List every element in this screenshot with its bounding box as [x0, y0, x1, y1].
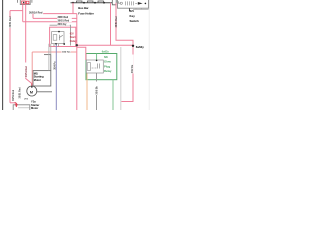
svg-text:30/4 Pu: 30/4 Pu	[54, 61, 57, 70]
svg-text:Fuse Holder: Fuse Holder	[78, 12, 94, 16]
svg-text:Plug: Plug	[104, 64, 110, 68]
fuse box side bracket left	[17, 0, 19, 3]
motor box right edge extension	[50, 55, 52, 71]
wire: bus bar drop to main feed	[110, 3, 112, 46]
wire: 1/32 Tan horizontal	[32, 51, 77, 53]
relay highlight box 62i (green)	[86, 54, 117, 80]
wire: gray below glow relay	[96, 73, 98, 110]
junction dot 6a62y	[132, 45, 134, 47]
starting motor box M1	[33, 71, 51, 86]
left page border	[2, 0, 4, 110]
svg-text:Relay: Relay	[104, 69, 112, 73]
bus bar	[71, 1, 113, 4]
wire: green below glow relay	[112, 80, 114, 110]
svg-text:30/2 Re: 30/2 Re	[131, 64, 134, 73]
wire: fuse pin A down	[22, 5, 24, 22]
svg-text:Motor: Motor	[34, 78, 41, 82]
battery cable hook (red)	[15, 103, 17, 107]
wire: branch to battery feed	[10, 10, 23, 12]
glow relay inner box	[86, 54, 103, 74]
svg-text:30/51 Red: 30/51 Red	[115, 16, 118, 28]
svg-text:Y1a: Y1a	[31, 99, 36, 103]
svg-text:30/51A Red: 30/51A Red	[29, 11, 43, 14]
key switch terminal dot	[145, 3, 147, 5]
wire: 30B Red horizontal	[33, 17, 77, 19]
wire: riser between 30/51A and 30B	[32, 14, 34, 19]
wire: gray pair to motor box	[48, 44, 50, 71]
fuse box side bracket right	[31, 0, 33, 3]
svg-text:30/4 Gy: 30/4 Gy	[58, 23, 68, 26]
start relay inner box	[52, 31, 66, 47]
right page border	[148, 0, 150, 110]
svg-text:6a62y: 6a62y	[136, 45, 144, 49]
wire: long vertical feed	[76, 14, 78, 110]
wire: fuse pin B down to motor	[26, 5, 32, 84]
wire: 30/4 Gy horizontal	[50, 25, 71, 45]
wire: main feed to key switch drop	[77, 44, 133, 46]
svg-text:Relay: Relay	[70, 40, 77, 43]
svg-text:Glow: Glow	[104, 60, 112, 64]
fuse element (red)	[22, 1, 29, 4]
key switch box 62t	[118, 0, 149, 8]
svg-text:30/51 Red: 30/51 Red	[25, 65, 28, 77]
wire: red drop into glow relay	[77, 47, 86, 60]
wire: battery feed vertical	[9, 11, 11, 103]
key switch internals	[118, 1, 137, 5]
svg-text:30/51 Red: 30/51 Red	[18, 87, 21, 99]
battery cable arrowhead	[15, 104, 18, 107]
svg-text:62f: 62f	[70, 32, 74, 35]
wire: orange below glow relay	[86, 73, 88, 110]
key switch bottom connector strip	[133, 8, 149, 10]
svg-text:Key: Key	[130, 14, 136, 18]
svg-text:Starter: Starter	[31, 103, 39, 107]
bus bar end connector	[112, 0, 116, 5]
starter motor circle M	[27, 84, 37, 97]
motor box partial top edge	[44, 54, 51, 56]
svg-text:1/32 Tan: 1/32 Tan	[62, 51, 71, 53]
svg-text:Start: Start	[70, 36, 76, 39]
wire: 30/51A Red horizontal	[43, 13, 77, 15]
svg-text:62t: 62t	[130, 9, 134, 13]
wire: purple 30/4 Pu	[55, 44, 57, 110]
key switch lead stub	[129, 8, 131, 11]
wire: tan drop to motor	[31, 52, 33, 84]
wire: light gray	[120, 47, 122, 110]
wire: bus bar right drop	[116, 3, 133, 102]
svg-text:Bus Bar: Bus Bar	[78, 6, 88, 10]
fuse holder box	[20, 0, 30, 5]
junction dot	[76, 44, 78, 46]
svg-text:6a62x: 6a62x	[102, 51, 110, 54]
motor box lower edge	[37, 91, 53, 93]
svg-text:Switch: Switch	[130, 19, 140, 23]
svg-text:30/51 Red: 30/51 Red	[9, 16, 12, 28]
relay highlight box 62f (red)	[50, 27, 76, 46]
wire: 30/51 Red horizontal	[23, 21, 77, 23]
wire: battery feed bottom horizontal	[10, 102, 15, 104]
key switch contact arrow	[138, 2, 143, 5]
label backings for wire names	[29, 11, 43, 14]
svg-text:30/6 Bk: 30/6 Bk	[96, 86, 99, 95]
wire: riser to bus bar	[72, 3, 74, 14]
svg-text:Motor: Motor	[31, 106, 38, 110]
svg-text:30/51 Red: 30/51 Red	[12, 89, 15, 101]
battery box	[13, 105, 30, 112]
svg-text:62i: 62i	[104, 55, 108, 59]
